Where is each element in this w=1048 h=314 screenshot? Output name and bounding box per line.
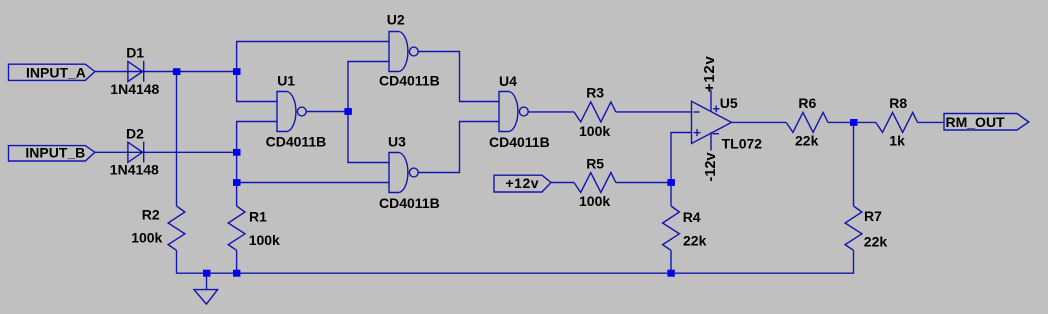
wire U2 output to U4 input A xyxy=(418,52,499,102)
svg-text:-12v: -12v xyxy=(703,152,719,181)
wire net B: INPUT_B to D2 to junction xyxy=(95,151,237,153)
svg-text:R2: R2 xyxy=(142,207,160,223)
svg-text:INPUT_A: INPUT_A xyxy=(26,64,86,80)
svg-text:R3: R3 xyxy=(586,84,604,100)
svg-text:R6: R6 xyxy=(798,95,816,111)
svg-text:R5: R5 xyxy=(586,156,604,172)
NAND gate U2 xyxy=(389,32,418,72)
svg-text:TL072: TL072 xyxy=(722,136,763,152)
junction node B at D2 xyxy=(233,149,241,156)
wire net A: junction down to U1 input A xyxy=(237,72,277,102)
svg-text:1k: 1k xyxy=(889,133,905,149)
junction ground tap xyxy=(203,270,210,277)
wire net A: INPUT_A to D1 to junctions xyxy=(95,71,237,73)
wire node up to U5 non-inverting input xyxy=(671,133,692,183)
NAND gate U1 xyxy=(277,92,306,132)
wire R6 to junction to R8 xyxy=(828,121,876,123)
wire U3 output to U4 input B xyxy=(418,122,499,173)
svg-text:R8: R8 xyxy=(889,95,907,111)
resistor R8 xyxy=(876,112,918,132)
svg-text:R1: R1 xyxy=(249,209,267,225)
ground xyxy=(194,273,218,304)
wire U5 positive supply pin xyxy=(710,90,712,112)
svg-text:CD4011B: CD4011B xyxy=(489,134,550,150)
svg-text:+12v: +12v xyxy=(701,55,718,92)
wire net B: junction to U3 input B xyxy=(237,182,389,184)
junction node B at U3 input row xyxy=(233,179,241,186)
svg-text:CD4011B: CD4011B xyxy=(379,72,440,88)
svg-text:CD4011B: CD4011B xyxy=(379,195,440,211)
wire net A: junction to R2 top xyxy=(176,72,178,207)
junction node A at D1 / R2 xyxy=(173,68,181,75)
op-amp U5 xyxy=(692,101,732,143)
resistor R7 xyxy=(845,206,862,250)
resistor R5 xyxy=(574,173,616,193)
net flag INPUT_A xyxy=(9,64,95,80)
svg-text:D1: D1 xyxy=(126,45,144,61)
svg-text:1N4148: 1N4148 xyxy=(110,162,159,178)
net flag +12v xyxy=(494,175,551,192)
wire R3 to U5 inverting input xyxy=(616,111,692,113)
svg-text:CD4011B: CD4011B xyxy=(266,133,327,149)
wire net A: junction up to U2 input A xyxy=(237,42,389,72)
wire U4 output to R3 xyxy=(528,111,574,113)
NAND gate U4 xyxy=(499,92,528,132)
svg-text:100k: 100k xyxy=(579,193,610,209)
wire R5 to node at R4 xyxy=(616,182,671,184)
wire +12v flag to R5 xyxy=(551,182,574,184)
wire R1 bottom to bus xyxy=(236,250,238,273)
wire U1 output to junction xyxy=(306,111,348,113)
svg-text:100k: 100k xyxy=(579,123,610,139)
junction R4 bottom xyxy=(667,270,674,277)
wire U1 out junction up to U2 input B and down to U3 input A xyxy=(348,62,389,163)
wire net B: U1 input B down through junctions to R1 top xyxy=(237,122,277,207)
svg-text:+12v: +12v xyxy=(506,175,540,191)
wire U5 negative supply pin xyxy=(710,132,712,150)
wire R4 bottom to bus xyxy=(670,250,672,273)
svg-text:22k: 22k xyxy=(864,234,888,250)
svg-text:RM_OUT: RM_OUT xyxy=(946,114,1006,130)
svg-text:U3: U3 xyxy=(388,133,406,149)
net flag INPUT_B xyxy=(9,146,95,161)
wire R8 to RM_OUT flag xyxy=(918,121,944,123)
svg-text:100k: 100k xyxy=(131,229,162,245)
svg-text:U4: U4 xyxy=(499,73,517,89)
svg-text:U2: U2 xyxy=(387,11,405,27)
svg-text:22k: 22k xyxy=(683,233,707,249)
junction node A at x237 xyxy=(233,68,241,75)
NAND gate U3 xyxy=(389,153,418,193)
svg-text:D2: D2 xyxy=(126,126,144,142)
resistor R4 xyxy=(663,206,680,250)
resistor R1 xyxy=(228,206,245,250)
svg-text:100k: 100k xyxy=(249,232,280,248)
diode D1 xyxy=(128,61,144,82)
svg-text:U1: U1 xyxy=(277,72,295,88)
svg-text:R4: R4 xyxy=(683,209,701,225)
svg-text:1N4148: 1N4148 xyxy=(110,81,159,97)
junction R6/R8/R7 node xyxy=(850,119,858,126)
junction U1 output node xyxy=(344,108,352,115)
junction R5/R4 node xyxy=(667,179,675,186)
net flag RM_OUT xyxy=(944,114,1029,131)
resistor R6 xyxy=(786,112,828,132)
svg-text:22k: 22k xyxy=(795,133,819,149)
wire ground bus xyxy=(177,250,854,273)
svg-text:U5: U5 xyxy=(720,95,738,111)
resistor R3 xyxy=(574,102,616,122)
svg-text:INPUT_B: INPUT_B xyxy=(25,145,85,161)
resistor R2 xyxy=(168,206,185,250)
wire junction down to R7 top xyxy=(853,122,855,206)
diode D2 xyxy=(128,142,144,163)
svg-text:R7: R7 xyxy=(864,208,882,224)
wire node down to R4 top xyxy=(670,183,672,207)
wire U5 output to R6 xyxy=(732,121,787,123)
junction R1 bottom xyxy=(233,270,240,277)
